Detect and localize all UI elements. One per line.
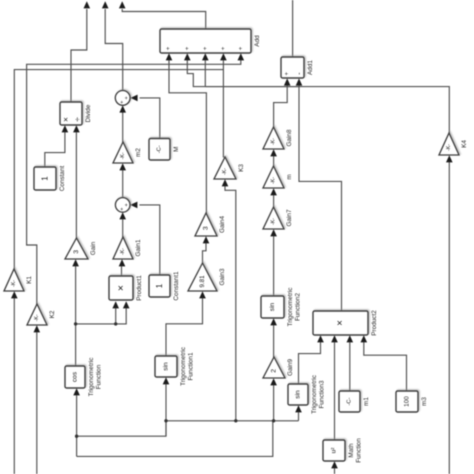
junction theta line at K3 branch	[234, 419, 237, 422]
wire theta to sin3	[295, 405, 302, 421]
add block Add	[160, 29, 251, 53]
svg-text:Gain: Gain	[90, 241, 97, 255]
svg-text:1: 1	[155, 283, 164, 288]
svg-text:+: +	[184, 46, 191, 50]
wire m1 to Product2 in3	[347, 335, 354, 391]
svg-text:+: +	[284, 72, 291, 76]
svg-text:K4: K4	[461, 140, 468, 148]
svg-text:-C-: -C-	[347, 397, 353, 405]
trig block cos Trigonometric Function	[65, 366, 85, 388]
wire Constant1 to Sum2	[130, 202, 160, 275]
gain m	[263, 166, 284, 188]
svg-text:Divide: Divide	[85, 104, 92, 122]
constant block M	[149, 139, 170, 161]
wire Add input3 riser	[202, 53, 209, 86]
svg-text:-K-: -K-	[271, 177, 277, 184]
svg-text:2: 2	[271, 369, 278, 373]
wire u2 to Product2 in2	[331, 335, 338, 440]
svg-text:÷: ÷	[72, 117, 82, 122]
svg-text:+: +	[124, 96, 130, 100]
svg-text:m: m	[286, 174, 293, 179]
product block Product1	[109, 276, 133, 300]
wire K1 input from bottom	[11, 291, 18, 474]
constant block 100 m3	[396, 391, 418, 412]
svg-text:1: 1	[41, 176, 50, 181]
svg-text:+: +	[124, 203, 130, 207]
junction cos riser branch	[75, 435, 78, 438]
wire sin1 to Gain3	[166, 291, 206, 356]
wire K3 to Add input4	[220, 53, 227, 157]
constant block Constant1	[149, 275, 170, 297]
wire K2 input from bottom	[34, 325, 41, 474]
wire Constant to Divide x-input	[45, 125, 68, 167]
wire long line to K4	[205, 87, 449, 134]
svg-text:3: 3	[203, 226, 210, 230]
wire K1 to Add line B	[14, 70, 223, 270]
gain Gain7	[263, 207, 284, 229]
svg-text:Trigonometric: Trigonometric	[311, 374, 318, 414]
junction Product1 input branch	[114, 322, 117, 325]
wire Gain9 input	[270, 378, 277, 421]
svg-text:cos: cos	[72, 371, 79, 382]
svg-text:K3: K3	[238, 164, 245, 172]
svg-text:×: ×	[60, 117, 70, 122]
wire K4 input from bottom	[446, 155, 453, 474]
gain Gain4 3	[195, 213, 217, 236]
gain Gain8	[263, 127, 284, 149]
wire u2 input stub	[331, 461, 338, 474]
svg-text:Product2: Product2	[371, 310, 378, 336]
svg-text:Gain1: Gain1	[135, 239, 142, 256]
wire 100 to Product2 in4	[361, 335, 407, 391]
svg-text:-K-: -K-	[11, 280, 17, 287]
junction theta line at sin1	[164, 419, 167, 422]
svg-text:Function1: Function1	[187, 352, 194, 381]
svg-text:Trigonometric: Trigonometric	[180, 346, 187, 386]
gain K3	[214, 157, 236, 179]
wire Gain4 to Add input1	[166, 53, 207, 213]
wire Sum1 output to top port	[102, 1, 123, 90]
junction cos output branch	[74, 322, 77, 325]
svg-text:Gain8: Gain8	[286, 129, 293, 146]
svg-text:+: +	[165, 46, 172, 50]
svg-text:+: +	[238, 46, 245, 50]
svg-text:-K-: -K-	[222, 168, 228, 175]
wire Gain7 to m	[270, 188, 277, 207]
product block Product2	[313, 311, 368, 335]
wire m2 to Sum1	[119, 105, 126, 142]
gain K2	[27, 304, 47, 325]
svg-text:-K-: -K-	[271, 218, 277, 225]
svg-text:sin: sin	[269, 302, 276, 311]
svg-text:Function: Function	[355, 438, 362, 463]
wire M to Sum1	[130, 95, 159, 139]
wire Product2 to Add1 minus	[296, 78, 342, 311]
junction theta line at Gain9	[272, 419, 275, 422]
gain K1	[4, 269, 24, 291]
svg-text:Function: Function	[95, 364, 102, 389]
svg-text:Constant: Constant	[59, 165, 66, 191]
svg-text:×: ×	[335, 320, 346, 326]
svg-text:+: +	[202, 46, 209, 50]
wire y456 line	[77, 421, 273, 457]
wire Product1 to Gain1	[119, 259, 126, 276]
wire Gain3 to Gain4	[203, 236, 210, 263]
svg-text:Gain4: Gain4	[219, 216, 226, 233]
svg-text:Function2: Function2	[294, 293, 301, 322]
wire cos input riser	[73, 388, 80, 456]
gain Gain1	[113, 237, 133, 259]
wire sin3 to Product2 in1	[299, 335, 324, 384]
svg-text:3: 3	[73, 250, 80, 254]
svg-text:m3: m3	[421, 397, 428, 406]
wire Divide output to top port	[71, 1, 90, 102]
wire theta distribution line	[166, 420, 299, 422]
add block Add1	[281, 57, 304, 78]
svg-text:100: 100	[404, 396, 411, 407]
svg-text:Math: Math	[348, 443, 355, 458]
constant block m1	[339, 391, 360, 412]
gain Gain9 2	[263, 357, 285, 378]
wire Add1 output to top edge	[292, 0, 294, 58]
svg-text:Trigonometric: Trigonometric	[88, 357, 95, 397]
sum junction Sum1	[115, 91, 130, 106]
svg-text:Product1: Product1	[136, 275, 143, 301]
svg-text:sin: sin	[163, 362, 170, 371]
svg-text:Function3: Function3	[318, 380, 325, 409]
svg-text:Gain9: Gain9	[287, 359, 294, 376]
svg-text:+: +	[220, 46, 227, 50]
wire Gain to Divide div-input	[73, 125, 80, 238]
wire cos branch to Product1	[76, 301, 130, 324]
svg-text:-K-: -K-	[271, 138, 277, 145]
svg-text:sin: sin	[295, 390, 302, 399]
wire Sum2 to m2	[119, 163, 126, 197]
wire branch cos to sin1	[77, 421, 166, 436]
svg-text:Add1: Add1	[307, 60, 314, 75]
svg-text:Add: Add	[254, 35, 261, 47]
trig block sin Trigonometric Function3	[288, 384, 308, 405]
wire Gain9 to sin2	[270, 318, 277, 357]
gain K4	[439, 133, 459, 155]
svg-text:-K-: -K-	[34, 314, 40, 321]
svg-text:m1: m1	[363, 397, 370, 406]
trig block sin Trigonometric Function2	[261, 296, 284, 318]
svg-text:-K-: -K-	[120, 152, 126, 159]
gain Gain 3	[65, 238, 88, 259]
svg-text:Constant1: Constant1	[173, 271, 180, 301]
svg-text:m2: m2	[135, 148, 142, 157]
wire cos to Gain	[72, 259, 79, 366]
wire Add output to top port	[119, 1, 206, 29]
svg-text:u²: u²	[331, 448, 338, 454]
divide block Divide	[60, 102, 82, 125]
wire Add input2 staircase	[184, 53, 299, 86]
wire sin2 to Gain7	[270, 229, 277, 296]
constant block Constant	[34, 167, 56, 190]
trig block sin Trigonometric Function1	[155, 356, 177, 377]
gain m2	[113, 142, 133, 163]
svg-text:M: M	[173, 147, 180, 152]
svg-text:K1: K1	[26, 276, 33, 284]
svg-text:×: ×	[115, 285, 127, 291]
svg-text:Gain7: Gain7	[286, 209, 293, 226]
wire m to Gain8	[270, 149, 277, 166]
gain Gain3 9.81	[188, 263, 217, 291]
wire K2 to Add input5 (line A)	[27, 53, 245, 305]
sum junction Sum2	[115, 198, 130, 213]
wire Gain1 to Sum2	[119, 212, 126, 237]
wire theta branch to K3	[222, 179, 236, 421]
wire Gain8 to Add1 plus	[274, 78, 291, 127]
wire sin1 input riser	[163, 377, 170, 436]
svg-text:-C-: -C-	[157, 145, 163, 153]
svg-text:-K-: -K-	[120, 248, 126, 255]
svg-text:Gain3: Gain3	[219, 268, 226, 285]
svg-text:K2: K2	[49, 310, 56, 318]
svg-text:9.81: 9.81	[199, 275, 206, 288]
svg-text:Trigonometric: Trigonometric	[287, 287, 294, 327]
math block u2 Math Function	[323, 440, 345, 461]
svg-text:-K-: -K-	[446, 144, 452, 151]
